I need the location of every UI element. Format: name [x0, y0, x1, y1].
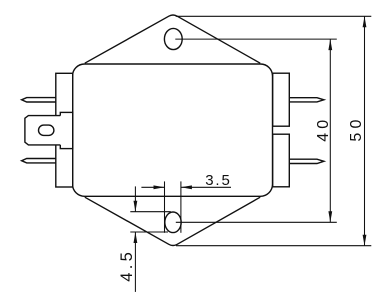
extension line hole bottom (4.5) [130, 231, 168, 233]
extension line apex bottom (50) [176, 245, 371, 247]
extension line apex top (50) [176, 15, 372, 17]
dimension line 4.5 lower arm [134, 232, 136, 292]
arrow 40 bottom [328, 211, 332, 222]
right lower terminal block [273, 134, 290, 187]
filter case body [73, 64, 273, 196]
dimension line 40 [329, 39, 331, 222]
left upper pin [22, 98, 57, 102]
extension line hole top (4.5) [130, 211, 171, 213]
flange bottom ear [85, 197, 260, 245]
extension line bottom hole center (40) [176, 221, 337, 223]
dimension line 3.5 right arm [181, 186, 231, 188]
arrow 50 top [363, 16, 367, 27]
right upper pin [289, 98, 324, 102]
extension line top hole center (40) [175, 38, 336, 40]
flange top ear [85, 15, 260, 63]
left end plate [56, 73, 73, 187]
arrow 3.5 left [154, 185, 165, 189]
extension line hole right (3.5) [180, 181, 182, 232]
dimension line 4.5 upper arm [134, 186, 136, 211]
arrow 4.5 down [134, 201, 138, 212]
arrow 40 top [328, 39, 332, 50]
left lower pin [22, 159, 57, 163]
dimension line 50 [364, 16, 366, 245]
extension line hole left (3.5) [164, 181, 166, 232]
right lower pin [289, 159, 324, 163]
tab slot hole [39, 125, 54, 135]
faston tab blade mask [25, 116, 61, 145]
svg-text:4.5: 4.5 [118, 252, 136, 282]
dimension line 3.5 left arm [141, 186, 164, 188]
arrow 3.5 right [181, 185, 192, 189]
tab collar [60, 112, 72, 148]
top mounting hole [164, 28, 182, 49]
right upper terminal block [273, 73, 290, 126]
bottom mounting hole [165, 212, 181, 233]
faston tab blade outline [25, 116, 60, 145]
svg-text:3.5: 3.5 [205, 172, 230, 189]
arrow 4.5 up [134, 232, 138, 243]
arrow 50 bottom [363, 235, 367, 246]
